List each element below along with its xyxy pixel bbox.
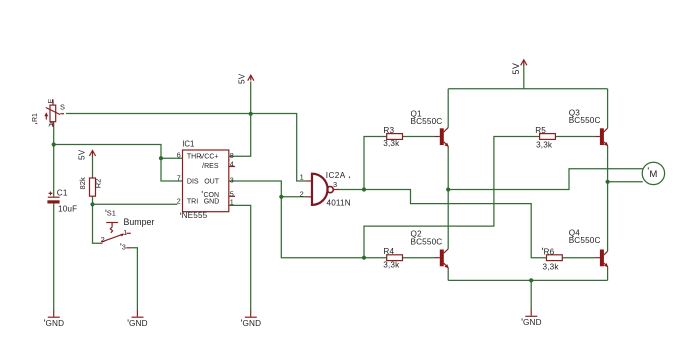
- svg-text:3,3k: 3,3k: [536, 140, 553, 149]
- svg-text:1: 1: [123, 228, 127, 237]
- svg-text:10uF: 10uF: [58, 205, 77, 214]
- svg-text:C1: C1: [57, 189, 68, 198]
- svg-text:R3: R3: [383, 126, 394, 135]
- svg-text:R5: R5: [535, 126, 546, 135]
- svg-text:IC2A: IC2A: [326, 171, 346, 180]
- svg-text:BC550C: BC550C: [569, 236, 601, 245]
- svg-text:M: M: [649, 169, 657, 180]
- svg-text:2: 2: [101, 235, 105, 244]
- svg-text:S: S: [60, 103, 65, 112]
- svg-text:3,3k: 3,3k: [383, 139, 400, 148]
- svg-text:BC550C: BC550C: [569, 116, 601, 125]
- svg-text:E: E: [47, 98, 54, 103]
- svg-text:3,3k: 3,3k: [383, 260, 400, 269]
- svg-text:/RES: /RES: [202, 163, 219, 170]
- svg-text:7: 7: [177, 174, 181, 183]
- svg-text:GND: GND: [204, 199, 220, 206]
- svg-text:GND: GND: [243, 319, 262, 328]
- svg-text:4011N: 4011N: [327, 199, 351, 208]
- svg-text:3,3k: 3,3k: [543, 263, 560, 272]
- svg-text:R4: R4: [383, 247, 394, 256]
- svg-text:2: 2: [300, 189, 304, 198]
- svg-text:1: 1: [230, 198, 234, 207]
- svg-text:A: A: [49, 119, 54, 128]
- svg-text:6: 6: [177, 151, 181, 160]
- svg-text:NE555: NE555: [182, 211, 208, 220]
- svg-text:DIS: DIS: [187, 179, 199, 186]
- svg-text:TRI: TRI: [187, 199, 198, 206]
- svg-text:BC550C: BC550C: [411, 238, 443, 247]
- svg-text:IC1: IC1: [182, 140, 194, 149]
- svg-text:R2: R2: [94, 179, 103, 189]
- svg-text:GND: GND: [129, 319, 148, 328]
- svg-text:GND: GND: [523, 318, 542, 327]
- svg-text:Bumper: Bumper: [124, 217, 155, 227]
- svg-text:2: 2: [177, 197, 181, 206]
- svg-text:3: 3: [122, 242, 126, 251]
- svg-text:5V: 5V: [78, 149, 87, 160]
- svg-text:OUT: OUT: [204, 179, 220, 186]
- svg-text:82k: 82k: [78, 177, 87, 189]
- svg-text:3: 3: [230, 175, 234, 184]
- svg-text:3: 3: [333, 180, 337, 189]
- svg-text:1: 1: [300, 173, 304, 182]
- svg-text:GND: GND: [46, 319, 65, 328]
- svg-text:BC550C: BC550C: [411, 117, 443, 126]
- svg-text:4: 4: [230, 159, 234, 168]
- svg-text:VCC+: VCC+: [200, 154, 219, 161]
- svg-text:R6: R6: [544, 248, 555, 257]
- svg-text:5V: 5V: [511, 63, 521, 75]
- svg-text:R1: R1: [32, 113, 39, 122]
- svg-text:5V: 5V: [237, 73, 246, 84]
- svg-text:S1: S1: [107, 209, 116, 218]
